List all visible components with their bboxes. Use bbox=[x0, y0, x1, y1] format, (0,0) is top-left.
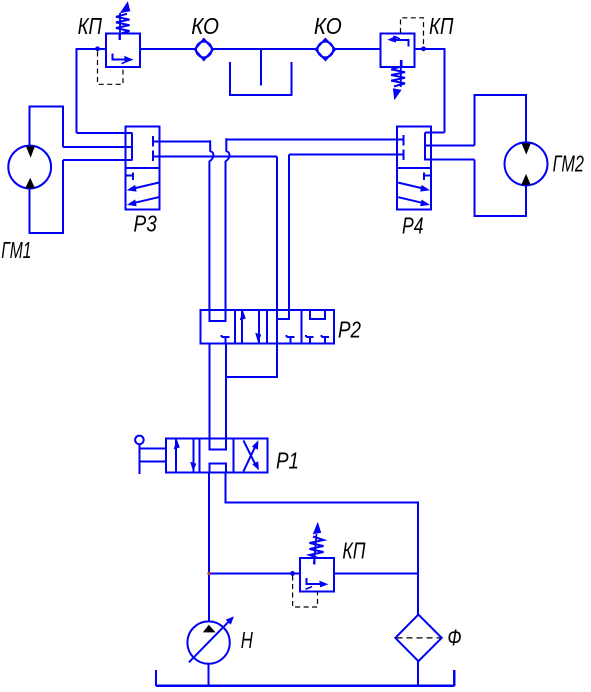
svg-text:КО: КО bbox=[314, 13, 342, 39]
svg-text:Р1: Р1 bbox=[276, 448, 299, 474]
svg-text:Н: Н bbox=[241, 627, 253, 653]
svg-text:Р2: Р2 bbox=[338, 316, 361, 342]
svg-text:Р3: Р3 bbox=[134, 211, 157, 237]
svg-text:КП: КП bbox=[429, 13, 454, 39]
svg-text:Ф: Ф bbox=[447, 624, 461, 650]
svg-text:ГМ2: ГМ2 bbox=[553, 151, 584, 177]
svg-text:КП: КП bbox=[78, 13, 103, 39]
svg-text:КП: КП bbox=[342, 538, 365, 564]
svg-text:ГМ1: ГМ1 bbox=[1, 237, 31, 263]
svg-text:Р4: Р4 bbox=[402, 212, 424, 238]
svg-text:КО: КО bbox=[191, 13, 219, 39]
